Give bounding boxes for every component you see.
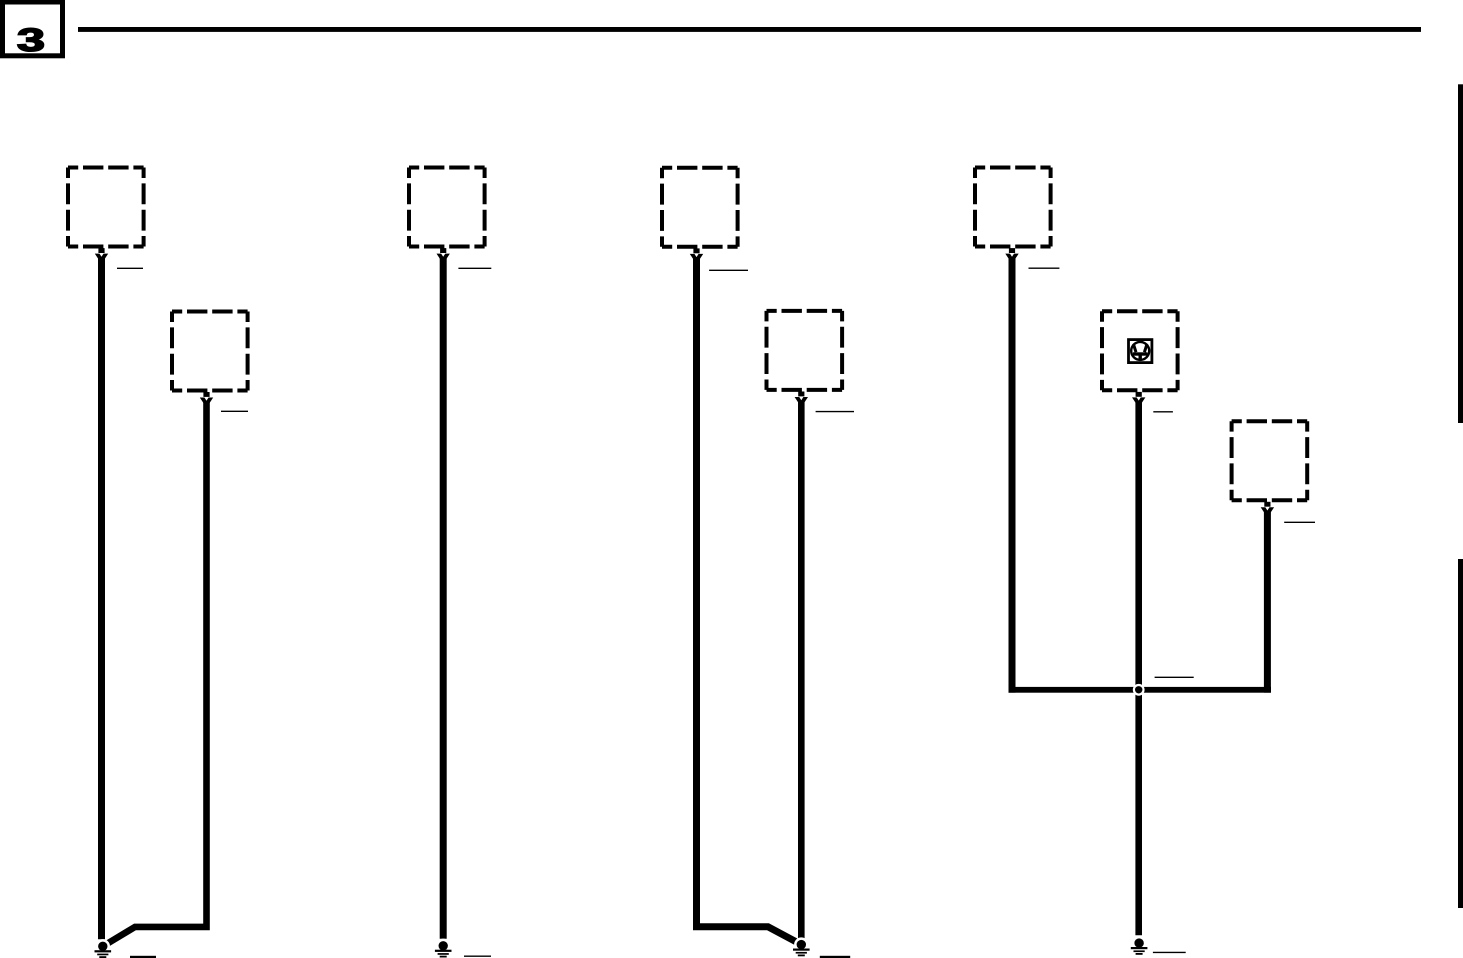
connector C1 feed arrow (95, 248, 108, 260)
icon funnel right diagonal (1144, 344, 1147, 352)
ground G4 label line (1153, 951, 1186, 953)
wire W2 with elbow to ground (103, 402, 207, 947)
ground G2 label line (464, 955, 491, 957)
node J1 dot (1135, 686, 1142, 693)
wire W7 vertical through node (1135, 401, 1142, 935)
wire W5 (798, 401, 805, 939)
wire W4 label line (709, 269, 748, 271)
wire W2 label line (221, 410, 248, 412)
ground G4 (1131, 936, 1148, 955)
connector C2 (dashed box) (172, 312, 248, 391)
connector C6 (dashed box) (975, 168, 1051, 247)
connector C6 feed arrow (1005, 248, 1018, 260)
connector C4 (dashed box) (662, 168, 738, 247)
icon funnel left diagonal (1133, 344, 1136, 352)
connector C7 (dashed box with icon) (1102, 311, 1178, 390)
wire W3 (440, 258, 447, 939)
page number box frame (3, 2, 63, 56)
connector C5 (dashed box) (767, 311, 843, 390)
icon square (1129, 340, 1152, 363)
wire W1 label line (117, 267, 143, 269)
bus wire joining W6 W7 W8 (1009, 687, 1272, 693)
right margin bar lower (1458, 559, 1463, 908)
wire W5 label line (816, 411, 854, 413)
connector C5 feed arrow (795, 392, 808, 404)
ground G3 bold label (820, 956, 850, 958)
connector C7 feed arrow (1132, 392, 1145, 404)
connector C1 (dashed box) (68, 168, 144, 247)
ground G1 (95, 939, 112, 958)
wire W4 with elbow to ground (697, 258, 802, 945)
wire W6 vertical (1009, 258, 1016, 693)
connector C3 feed arrow (437, 248, 450, 260)
node J1 label line (1155, 676, 1194, 678)
node J1 halo (1133, 684, 1145, 696)
icon funnel bar (1133, 352, 1148, 355)
wire W3 label line (458, 267, 491, 269)
svg-text:3: 3 (17, 22, 45, 58)
top horizontal rule (78, 27, 1421, 32)
ground G2 (435, 939, 452, 958)
icon funnel stem (1138, 354, 1141, 360)
connector C4 feed arrow (690, 248, 703, 260)
wire W7 label line (1153, 411, 1173, 413)
connector C3 (dashed box) (409, 168, 485, 247)
ground G1 bold label (130, 956, 156, 958)
connector C8 (dashed box) (1232, 421, 1308, 500)
wire W8 vertical (1264, 511, 1271, 692)
wire W8 label line (1284, 521, 1315, 523)
right margin bar upper (1458, 84, 1463, 423)
connector C2 feed arrow (200, 392, 213, 404)
wire W6 label line (1029, 267, 1060, 269)
ground G3 (793, 937, 810, 956)
connector C8 feed arrow (1261, 502, 1274, 514)
wire W1 (98, 258, 105, 940)
icon circle (1131, 342, 1149, 360)
